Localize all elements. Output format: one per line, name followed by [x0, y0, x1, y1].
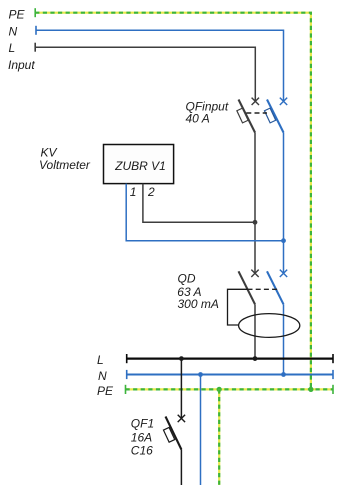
wire PE input (yellow/green) — [35, 8, 311, 389]
wire N input (blue) — [36, 26, 284, 102]
svg-text:2: 2 — [147, 185, 155, 199]
wire L input (dark) — [35, 43, 255, 102]
svg-text:QF1: QF1 — [131, 416, 154, 430]
RCD QD pole N (contact X) — [280, 270, 287, 277]
breaker QFinput pole L thermal element — [237, 108, 248, 123]
svg-text:C16: C16 — [131, 443, 153, 457]
voltmeter U1 box ZUBR V1 — [104, 145, 174, 184]
svg-text:QD: QD — [178, 272, 196, 286]
svg-text:ZUBR V1: ZUBR V1 — [114, 159, 166, 173]
junction dot L/pin2 — [253, 220, 258, 225]
svg-text:L: L — [9, 41, 16, 55]
junction dot N/pin1 — [281, 238, 286, 243]
junction dot QD-L to bus — [253, 356, 258, 361]
wire PE branch down (yellow/green) — [218, 389, 220, 485]
RCD QD pole N blade — [267, 271, 284, 304]
breaker QF1 thermal element — [163, 427, 174, 442]
wire QD N output — [283, 304, 285, 374]
wire QFinput N output — [283, 133, 285, 274]
wire pin1 to N (blue) — [126, 184, 283, 241]
breaker QF1 blade — [166, 417, 182, 450]
bus L (black) — [127, 354, 333, 363]
QFinput mechanical link (dashed) — [246, 112, 267, 114]
svg-text:N: N — [9, 24, 18, 38]
breaker QFinput pole N blade — [267, 100, 284, 133]
svg-text:N: N — [98, 369, 107, 383]
QD mechanical link (dashed) — [248, 288, 278, 290]
svg-text:300 mA: 300 mA — [178, 297, 219, 311]
junction dot N branch — [198, 372, 203, 377]
junction dot N feed to bus — [281, 372, 286, 377]
svg-text:Voltmeter: Voltmeter — [39, 158, 91, 172]
wire QD L output — [254, 304, 256, 358]
wire QF1 output — [180, 450, 182, 486]
junction dot PE branch — [217, 387, 222, 392]
svg-text:1: 1 — [130, 185, 137, 199]
wire QFinput L output — [254, 133, 256, 274]
svg-text:PE: PE — [97, 384, 114, 398]
wire L bus to QF1 — [180, 359, 182, 419]
breaker QF1 contact X — [178, 415, 185, 422]
junction dot QF1 tap on L bus — [179, 356, 184, 361]
svg-text:16A: 16A — [131, 430, 152, 444]
svg-text:Input: Input — [8, 58, 35, 72]
breaker QFinput pole N (contact X) — [280, 98, 287, 105]
svg-text:PE: PE — [9, 8, 26, 22]
junction dot PE feed to bus — [308, 387, 313, 392]
bus PE (yellow/green) — [126, 385, 334, 394]
svg-text:40 A: 40 A — [186, 112, 210, 126]
breaker QFinput pole N thermal element — [264, 108, 275, 123]
svg-text:L: L — [97, 353, 104, 367]
breaker QFinput pole L (contact X) — [252, 98, 259, 105]
QD differential toroid — [239, 314, 300, 338]
RCD QD pole L blade — [239, 271, 256, 304]
QD actuator linkage box — [228, 289, 248, 325]
wire N branch down — [200, 375, 202, 486]
wire pin2 to L (dark) — [143, 184, 255, 223]
bus N (blue) — [127, 370, 333, 379]
RCD QD pole L (contact X) — [251, 270, 258, 277]
breaker QFinput pole L blade — [239, 100, 256, 133]
